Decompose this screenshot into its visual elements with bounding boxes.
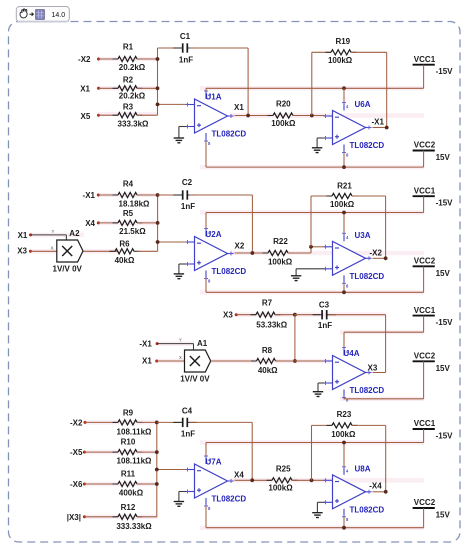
- junction U8A top pin: [342, 441, 346, 445]
- wire X1 to R2: [99, 87, 119, 89]
- svg-text:1V/V 0V: 1V/V 0V: [180, 374, 210, 383]
- svg-text:VCC2: VCC2: [414, 352, 436, 361]
- resistor R20: [268, 99, 299, 128]
- svg-text:X1: X1: [80, 84, 90, 93]
- power wire row1 VCC1: [206, 87, 424, 89]
- wire R25 to U8A minus: [292, 479, 325, 481]
- resistor R3: [113, 102, 150, 128]
- input bus row1: [157, 48, 159, 115]
- svg-text:R9: R9: [123, 409, 134, 418]
- wire C1 right: [189, 47, 248, 49]
- wire R5 to bus: [137, 222, 158, 224]
- input terminal -X2 row4: [70, 418, 87, 427]
- resistor R6: [110, 239, 140, 265]
- junction bus2-minus: [156, 240, 160, 244]
- wire R12 to bus: [137, 516, 157, 518]
- svg-text:X3: X3: [368, 364, 378, 373]
- wire A1 X input: [157, 360, 185, 362]
- wire C1 left: [158, 47, 181, 49]
- wire C4 left: [157, 421, 181, 423]
- bottom wire row3 VCC2: [344, 398, 424, 400]
- wire VCC1 row1 drop: [423, 65, 425, 89]
- svg-text:-X6: -X6: [70, 480, 83, 489]
- wire R8 to U4A minus: [276, 360, 325, 362]
- label A2 pin X: [51, 246, 54, 251]
- wire C3 right: [329, 314, 386, 316]
- junction bus4-R10: [155, 450, 159, 454]
- multiplier A1: [180, 339, 210, 383]
- svg-text:VCC1: VCC1: [414, 306, 436, 315]
- svg-text:100kΩ: 100kΩ: [330, 200, 355, 209]
- svg-text:333.33kΩ: 333.33kΩ: [116, 522, 152, 531]
- svg-text:-15V: -15V: [436, 432, 454, 441]
- wire U3A top pin red: [343, 213, 345, 234]
- svg-text:U2A: U2A: [206, 230, 222, 239]
- svg-text:VCC1: VCC1: [414, 55, 436, 64]
- wire VCC1 row4 drop: [423, 429, 425, 443]
- wire -X2 to R9: [85, 421, 118, 423]
- svg-text:108.11kΩ: 108.11kΩ: [117, 428, 152, 437]
- junction U6A top pin: [342, 86, 346, 90]
- wire VCC2 row2 drop: [423, 266, 425, 292]
- svg-text:15V: 15V: [436, 511, 451, 520]
- wire R21 top right: [352, 195, 386, 197]
- svg-text:R11: R11: [121, 470, 136, 479]
- svg-text:R3: R3: [123, 102, 134, 111]
- svg-text:X1: X1: [142, 356, 152, 365]
- wire U2A bottom pin red: [205, 279, 207, 293]
- wire A1 Y input: [157, 344, 193, 350]
- junction -X1 node: [385, 126, 389, 130]
- junction -X2 node: [384, 256, 388, 260]
- resistor R1: [113, 42, 146, 71]
- svg-text:1nF: 1nF: [318, 321, 332, 330]
- input terminal X1 A1: [142, 356, 158, 365]
- op-amp U2A: [186, 227, 247, 284]
- svg-text:1nF: 1nF: [181, 202, 195, 211]
- wire R21 left vertical: [310, 196, 312, 247]
- ground U7A: [174, 492, 187, 507]
- svg-text:TL082CD: TL082CD: [212, 495, 247, 504]
- svg-text:C4: C4: [182, 406, 193, 415]
- VCC1 row4: [413, 419, 454, 440]
- svg-text:-X1: -X1: [372, 117, 385, 126]
- wire U2A top pin red: [205, 213, 207, 229]
- junction R7-C3: [293, 313, 297, 317]
- wire C3 left: [295, 314, 320, 316]
- toolbar zoom button: [16, 7, 69, 23]
- svg-text:-X2: -X2: [370, 248, 383, 257]
- input bus row4: [156, 422, 158, 516]
- wire A2 out to R6: [84, 250, 119, 252]
- wire U2A out to R22: [235, 252, 269, 254]
- wire -X5 to R10: [84, 451, 118, 453]
- VCC2 row2: [413, 257, 451, 278]
- svg-text:-X2: -X2: [70, 418, 83, 427]
- svg-text:Y: Y: [52, 229, 55, 234]
- svg-text:X5: X5: [81, 112, 91, 121]
- wire |X3| to R12: [84, 516, 118, 518]
- svg-text:R12: R12: [121, 503, 136, 512]
- wire U4A bottom pin red: [343, 398, 345, 399]
- resistor R22: [263, 237, 294, 266]
- svg-text:VCC2: VCC2: [414, 141, 436, 150]
- wire U4A top pin red: [343, 332, 345, 347]
- capacitor C3: [313, 300, 337, 330]
- wire U3A bottom pin red: [343, 283, 345, 292]
- resistor R25: [267, 464, 298, 492]
- wire -X2 to R1: [99, 58, 119, 60]
- junction bus2-R5: [156, 221, 160, 225]
- junction U3A top pin: [342, 211, 346, 215]
- junction X1 node: [246, 114, 250, 118]
- wire -X1 to R4: [98, 194, 118, 196]
- wire C4 down to X4 node: [251, 422, 253, 480]
- power wire row4 VCC1: [206, 442, 424, 444]
- capacitor C2: [173, 178, 197, 211]
- op-amp U7A: [186, 454, 247, 511]
- ground U1A: [174, 127, 187, 143]
- ground U4A: [313, 383, 325, 397]
- wire R21 top left: [311, 195, 332, 197]
- svg-text:VCC2: VCC2: [414, 257, 436, 266]
- ground U2A: [174, 264, 187, 279]
- node -X4 label: [369, 481, 382, 490]
- svg-text:100kΩ: 100kΩ: [271, 119, 296, 128]
- svg-text:R4: R4: [123, 179, 134, 188]
- wire bus to U1A minus: [158, 103, 187, 105]
- op-amp U8A: [324, 464, 385, 522]
- resistor R7: [251, 299, 288, 330]
- svg-text:A1: A1: [197, 339, 208, 348]
- svg-text:R1: R1: [123, 42, 134, 51]
- svg-text:R6: R6: [119, 239, 130, 248]
- wire U6A out: [373, 127, 387, 129]
- svg-text:TL082CD: TL082CD: [350, 272, 385, 281]
- bottom wire row2 VCC2: [206, 291, 424, 293]
- wire U8A bottom pin red: [343, 517, 345, 528]
- input terminal X3 row3: [223, 311, 238, 320]
- VCC1 row2: [413, 186, 454, 207]
- resistor R19: [326, 37, 357, 65]
- resistor R21: [327, 182, 358, 210]
- resistor R10: [113, 438, 153, 466]
- svg-text:100kΩ: 100kΩ: [268, 257, 293, 266]
- junction U6A bottom pin: [342, 165, 346, 169]
- input terminal X1 A2: [18, 231, 32, 240]
- wire C2 left: [158, 194, 181, 196]
- svg-text:-X1: -X1: [83, 191, 96, 200]
- wire bus to U7A minus: [157, 469, 187, 471]
- wire U8A out: [373, 491, 386, 493]
- ground U3A: [291, 269, 325, 281]
- op-amp U1A: [186, 89, 247, 146]
- svg-text:108.11kΩ: 108.11kΩ: [117, 457, 152, 466]
- wire X3 to R7: [236, 314, 256, 316]
- wire U7A bottom pin red: [205, 506, 207, 528]
- wire C1 down to X1 node: [247, 48, 249, 116]
- resistor R8: [251, 346, 281, 375]
- junction bus1-R2: [156, 86, 160, 90]
- node X4 label: [234, 470, 244, 479]
- svg-text:14.0: 14.0: [52, 12, 66, 19]
- bottom wire row4 VCC2: [206, 527, 424, 529]
- junction R19 left: [310, 114, 314, 118]
- junction R23 left: [310, 478, 314, 482]
- junction bus4-R11: [155, 482, 159, 486]
- wire jog up row2: [310, 247, 312, 253]
- wire U6A top pin: [343, 88, 345, 102]
- capacitor C4: [173, 406, 197, 438]
- svg-text:R22: R22: [273, 237, 288, 246]
- svg-text:R19: R19: [335, 37, 350, 46]
- wire A2 X input: [30, 250, 56, 252]
- svg-text:40kΩ: 40kΩ: [115, 256, 135, 265]
- svg-text:53.33kΩ: 53.33kΩ: [256, 321, 287, 330]
- junction bus4 top: [155, 421, 159, 425]
- svg-text:R10: R10: [121, 438, 136, 447]
- wire R19 top right: [351, 51, 387, 53]
- wire R19 top left: [312, 51, 331, 53]
- svg-text:X4: X4: [234, 470, 244, 479]
- wire R23 top right: [352, 424, 386, 426]
- power wire row3 VCC1: [344, 331, 424, 333]
- input terminal -X1 row2: [83, 191, 100, 200]
- svg-text:-15V: -15V: [436, 67, 454, 76]
- junction U3A bottom pin: [342, 290, 346, 294]
- wire VCC2 row4 drop: [423, 508, 425, 528]
- svg-text:100kΩ: 100kΩ: [328, 56, 353, 65]
- svg-text:18.18kΩ: 18.18kΩ: [119, 200, 150, 209]
- svg-text:X2: X2: [235, 241, 245, 250]
- wire X5 to R3: [99, 114, 119, 116]
- ground U8A: [312, 502, 324, 517]
- op-amp U6A: [324, 100, 385, 158]
- label A1 pin Y: [179, 338, 182, 343]
- svg-text:X3: X3: [17, 247, 27, 256]
- svg-text:U8A: U8A: [355, 464, 371, 473]
- VCC2 row3: [413, 352, 451, 373]
- junction U8A bottom pin: [342, 526, 346, 530]
- wire R23 left vertical: [311, 425, 313, 480]
- wire A1 out to R8: [211, 360, 257, 362]
- wire VCC2 row1 drop: [423, 151, 425, 168]
- node X2 label: [235, 241, 245, 250]
- VCC1 row3: [413, 306, 454, 327]
- resistor R4: [113, 179, 151, 208]
- svg-text:400kΩ: 400kΩ: [119, 489, 144, 498]
- VCC1 row1: [413, 55, 454, 76]
- resistor R5: [113, 209, 147, 236]
- wire U3A out: [373, 257, 386, 259]
- svg-text:-X1: -X1: [139, 340, 152, 349]
- svg-text:R5: R5: [123, 209, 134, 218]
- svg-text:R23: R23: [337, 410, 352, 419]
- wire R3 to bus: [137, 114, 158, 116]
- wire U8A top pin red: [343, 443, 345, 467]
- input terminal X4: [85, 219, 100, 228]
- node X3 out label: [368, 364, 378, 373]
- svg-text:15V: 15V: [436, 364, 451, 373]
- wire feedback down to minus: [294, 315, 296, 361]
- ground U6A: [312, 138, 325, 153]
- wire U6A bottom pin: [343, 153, 345, 168]
- svg-text:X1: X1: [234, 103, 244, 112]
- resistor R9: [113, 409, 153, 437]
- wire U1A out to R20: [235, 115, 274, 117]
- wire R9 to bus: [137, 421, 157, 423]
- svg-text:C3: C3: [319, 300, 330, 309]
- svg-text:1nF: 1nF: [179, 56, 193, 65]
- wire R21 right vertical: [385, 196, 387, 258]
- wire U1A bottom pin: [205, 141, 207, 167]
- power wire row2 VCC1: [206, 212, 424, 214]
- wire R23 top left: [312, 424, 333, 426]
- wire R1 to bus: [137, 58, 158, 60]
- svg-text:U6A: U6A: [355, 100, 371, 109]
- svg-text:R21: R21: [337, 182, 352, 191]
- svg-text:VCC1: VCC1: [414, 419, 436, 428]
- input terminal -X5: [70, 448, 86, 457]
- svg-text:1V/V 0V: 1V/V 0V: [53, 264, 83, 273]
- svg-text:X1: X1: [18, 231, 28, 240]
- node -X2 label: [370, 248, 383, 257]
- resistor R11: [113, 470, 144, 498]
- wire bus to U2A minus: [158, 241, 187, 243]
- VCC2 row4: [413, 498, 451, 519]
- svg-text:C2: C2: [182, 178, 193, 187]
- svg-text:R7: R7: [262, 299, 273, 308]
- svg-text:R2: R2: [123, 76, 134, 85]
- svg-text:-15V: -15V: [436, 199, 454, 208]
- label A2 pin Y: [52, 229, 55, 234]
- svg-text:-15V: -15V: [436, 318, 454, 327]
- wire VCC2 row3 drop: [423, 361, 425, 399]
- junction feedback-minus row3: [293, 359, 297, 363]
- wire R11 to bus: [137, 483, 157, 485]
- wire VCC1 row3 drop: [423, 316, 425, 333]
- wire R7 to junction: [275, 314, 295, 316]
- svg-text:TL082CD: TL082CD: [350, 505, 385, 514]
- svg-text:TL082CD: TL082CD: [350, 141, 385, 150]
- svg-text:TL082CD: TL082CD: [350, 386, 385, 395]
- svg-text:20.2kΩ: 20.2kΩ: [119, 63, 146, 72]
- svg-text:U3A: U3A: [355, 231, 371, 240]
- wire jog to U3A minus: [311, 246, 325, 248]
- wire U7A top pin red: [205, 443, 207, 457]
- svg-text:C1: C1: [180, 32, 191, 41]
- svg-text:20.2kΩ: 20.2kΩ: [119, 91, 146, 100]
- wire U1A top pin: [205, 88, 207, 91]
- svg-text:X3: X3: [223, 311, 233, 320]
- svg-text:VCC2: VCC2: [414, 498, 436, 507]
- svg-text:1nF: 1nF: [181, 429, 195, 438]
- op-amp U4A: [324, 346, 385, 403]
- wire C3 down to X3 out: [385, 315, 387, 373]
- multiplier A2: [53, 229, 83, 273]
- wire X4 to R5: [98, 222, 118, 224]
- svg-text:15V: 15V: [436, 269, 451, 278]
- wire -X6 to R11: [84, 483, 118, 485]
- input terminal -X2: [78, 55, 100, 64]
- svg-text:|X3|: |X3|: [67, 513, 81, 522]
- svg-text:A2: A2: [69, 229, 80, 238]
- svg-text:40kΩ: 40kΩ: [258, 366, 278, 375]
- svg-text:Y: Y: [179, 338, 182, 343]
- junction bus2 top: [156, 193, 160, 197]
- resistor R23: [327, 410, 358, 439]
- svg-text:X: X: [179, 355, 182, 360]
- svg-text:R8: R8: [262, 346, 273, 355]
- wire R4 to bus: [137, 194, 158, 196]
- svg-text:VCC1: VCC1: [414, 186, 436, 195]
- junction X4 node: [250, 478, 254, 482]
- wire C2 right: [189, 194, 252, 196]
- input terminal X5: [81, 112, 100, 121]
- junction bus1-R1: [156, 57, 160, 61]
- wire R10 to bus: [137, 451, 157, 453]
- input terminal -X1 A1: [139, 340, 158, 349]
- svg-text:X: X: [51, 246, 54, 251]
- input terminal -X6: [70, 480, 86, 489]
- svg-text:-X4: -X4: [369, 481, 382, 490]
- svg-text:-X2: -X2: [78, 55, 91, 64]
- svg-text:U1A: U1A: [206, 93, 222, 102]
- junction -X4 node: [384, 490, 388, 494]
- node -X1 label: [372, 117, 385, 126]
- junction X2 node: [251, 251, 255, 255]
- svg-text:21.5kΩ: 21.5kΩ: [119, 227, 146, 236]
- svg-text:15V: 15V: [436, 153, 451, 162]
- svg-text:-X5: -X5: [70, 448, 83, 457]
- svg-text:100kΩ: 100kΩ: [331, 430, 356, 439]
- wire U4A out: [373, 372, 386, 374]
- resistor R2: [113, 76, 146, 101]
- wire C2 down to X2 node: [251, 195, 253, 253]
- op-amp U3A: [324, 231, 385, 288]
- svg-text:U4A: U4A: [344, 349, 360, 358]
- bottom wire row1 VCC2: [206, 166, 424, 168]
- wire U7A out to R25: [235, 479, 273, 481]
- wire A2 Y input: [31, 235, 67, 240]
- input bus row2: [157, 195, 159, 251]
- junction bus4-minus: [155, 468, 159, 472]
- wire VCC1 row2 drop: [423, 196, 425, 212]
- input terminal |X3|: [67, 513, 86, 522]
- input terminal X1: [80, 84, 100, 93]
- wire C4 right: [189, 421, 252, 423]
- svg-text:TL082CD: TL082CD: [212, 130, 247, 139]
- label A1 pin X: [179, 355, 182, 360]
- wire R19 right vertical: [386, 52, 388, 127]
- resistor R12: [113, 503, 153, 531]
- input terminal X3 A2: [17, 247, 32, 256]
- wire R22 to jog: [288, 252, 311, 254]
- svg-text:TL082CD: TL082CD: [212, 267, 247, 276]
- svg-text:R25: R25: [276, 464, 291, 473]
- wire R19 left vertical: [311, 52, 313, 115]
- svg-text:U7A: U7A: [206, 458, 222, 467]
- svg-text:R20: R20: [276, 99, 291, 108]
- svg-text:100kΩ: 100kΩ: [268, 484, 293, 493]
- wire R20 to U6A minus: [293, 115, 325, 117]
- wire R23 right vertical: [385, 425, 387, 491]
- node X1 label: [234, 103, 244, 112]
- VCC2 row1: [413, 141, 451, 162]
- svg-text:X4: X4: [85, 219, 95, 228]
- capacitor C1: [173, 32, 197, 65]
- wire R6 to bus: [137, 250, 158, 252]
